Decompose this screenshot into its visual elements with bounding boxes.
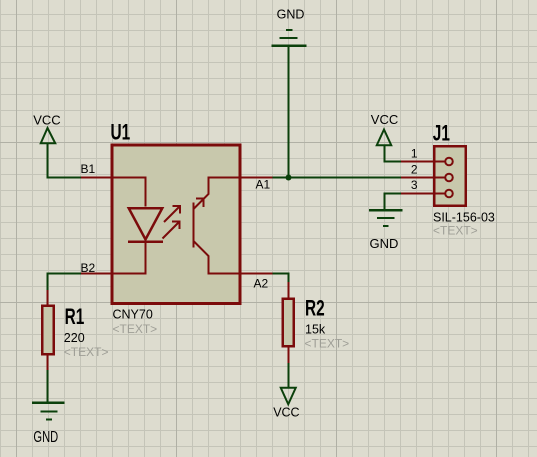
pin 3 line (401, 193, 446, 195)
power VCC (top-left) (41, 128, 56, 143)
transistor base bar (193, 203, 195, 248)
ground (bottom-left) (32, 403, 65, 420)
LED anode lead (113, 178, 146, 207)
ground (top, inverted) (272, 30, 307, 46)
svg-text:<TEXT>: <TEXT> (305, 337, 350, 351)
svg-text:2: 2 (411, 162, 418, 176)
LED cathode lead (113, 242, 146, 274)
pin 3 circle (445, 190, 453, 198)
LED cathode bar (128, 240, 163, 243)
pin 2 line (401, 177, 446, 179)
light arrow 2 (163, 222, 180, 239)
resistor R1 top lead (47, 290, 49, 305)
wire top ground to junction (288, 46, 290, 178)
power VCC (near J1) (377, 130, 392, 146)
pin A2 stub (241, 273, 273, 275)
transistor emitter arrowhead (196, 199, 204, 208)
svg-text:<TEXT>: <TEXT> (64, 345, 109, 359)
junction dot (286, 175, 292, 181)
resistor R1 body (42, 306, 53, 354)
svg-text:A1: A1 (256, 178, 271, 192)
connector J1 body (434, 146, 466, 206)
ground (below J1) (369, 210, 403, 226)
wire pin B2 to R1 top (48, 274, 82, 291)
svg-text:3: 3 (411, 178, 418, 192)
wire VCC-right to J1 pin1 (385, 146, 402, 162)
pin 1 line (401, 161, 446, 163)
pin B2 stub (81, 273, 113, 275)
wire R1 bottom to ground (47, 370, 49, 402)
resistor R2 bottom lead (288, 346, 290, 363)
svg-text:220: 220 (64, 331, 85, 345)
svg-text:VCC: VCC (371, 112, 398, 127)
wire J1 pin3 to ground (385, 194, 402, 211)
svg-text:CNY70: CNY70 (113, 308, 153, 322)
resistor R2 body (283, 299, 294, 347)
wire A2 to R2 top (273, 274, 289, 283)
svg-text:<TEXT>: <TEXT> (433, 224, 478, 238)
wire A1 to J1 pin2 (273, 177, 402, 179)
transistor collector path (194, 178, 241, 209)
svg-text:R2: R2 (305, 297, 325, 321)
LED triangle (129, 208, 163, 239)
svg-text:GND: GND (33, 428, 58, 445)
transistor emitter path (194, 241, 241, 273)
svg-text:VCC: VCC (33, 113, 60, 128)
pin 1 circle (445, 158, 453, 166)
resistor R1 bottom lead (47, 355, 49, 370)
svg-text:1: 1 (411, 147, 418, 161)
svg-text:GND: GND (370, 236, 399, 251)
svg-text:U1: U1 (111, 121, 131, 145)
pin B1 stub (81, 177, 113, 179)
svg-text:J1: J1 (433, 122, 450, 146)
power VCC (bottom, pointing down) (281, 388, 296, 405)
wire R2 bottom to VCC-bottom (288, 363, 290, 387)
resistor R2 top lead (288, 282, 290, 298)
svg-text:R1: R1 (65, 305, 85, 329)
svg-text:B1: B1 (81, 162, 96, 176)
svg-text:<TEXT>: <TEXT> (113, 322, 158, 336)
light arrow 1 (164, 206, 180, 222)
svg-text:A2: A2 (254, 277, 269, 291)
wire VCC-left to pin B1 (48, 143, 82, 178)
op-to body U1 (112, 145, 240, 304)
svg-text:VCC: VCC (273, 406, 299, 420)
pin 2 circle (445, 174, 453, 182)
pin A1 stub (241, 177, 273, 179)
svg-text:B2: B2 (81, 261, 96, 275)
svg-text:GND: GND (277, 7, 305, 21)
svg-text:15k: 15k (305, 323, 326, 337)
